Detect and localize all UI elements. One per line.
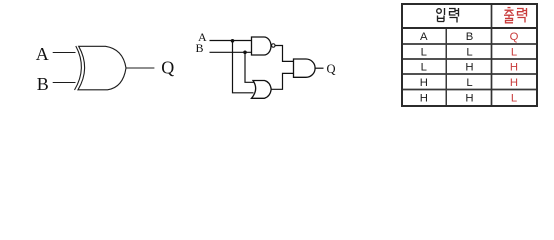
junction dot on B: [243, 51, 247, 55]
nand-gate U2 bubble: [272, 44, 276, 48]
xor-gate U1 body: [78, 46, 126, 90]
junction dot on A: [231, 39, 235, 43]
svg-text:L: L: [421, 62, 427, 74]
truth table row line 5: [403, 89, 536, 91]
wire A to XOR: [53, 52, 76, 54]
or-gate U3 body: [252, 81, 272, 99]
svg-text:Q: Q: [161, 58, 174, 78]
svg-text:B: B: [195, 41, 203, 55]
wire B to XOR: [53, 82, 76, 84]
truth table column line B|Q: [491, 5, 493, 105]
svg-text:L: L: [421, 46, 427, 58]
svg-text:A: A: [36, 44, 49, 64]
truth table row line 2: [403, 43, 536, 45]
wire B drop to OR: [245, 52, 254, 82]
svg-text:Q: Q: [326, 62, 335, 76]
wire A drop to OR: [233, 41, 254, 93]
wire XOR output to Q: [126, 67, 154, 69]
svg-text:H: H: [465, 62, 473, 74]
wire OR output to AND: [271, 73, 293, 89]
svg-text:B: B: [466, 31, 474, 43]
wire AND output: [315, 67, 323, 69]
wire A horizontal: [210, 40, 252, 42]
svg-text:A: A: [420, 31, 428, 43]
svg-text:H: H: [510, 77, 518, 89]
xor-gate U1 input arc: [75, 46, 82, 90]
svg-text:H: H: [420, 77, 428, 89]
truth table row line 4: [403, 73, 536, 75]
wire B horizontal: [210, 51, 252, 53]
svg-text:H: H: [465, 92, 473, 104]
svg-text:H: H: [420, 92, 428, 104]
truth table row line 3: [403, 58, 536, 60]
svg-text:B: B: [37, 74, 49, 94]
svg-text:L: L: [466, 77, 472, 89]
svg-text:Q: Q: [510, 31, 519, 43]
and-gate U4 body: [294, 59, 316, 77]
svg-text:H: H: [510, 62, 518, 74]
svg-text:L: L: [466, 46, 472, 58]
truth table column line A|B: [445, 29, 447, 105]
svg-text:L: L: [511, 92, 517, 104]
header 출력 (hangul drawn as paths, red): [504, 8, 527, 23]
svg-text:L: L: [511, 46, 517, 58]
nand-gate U2 body: [252, 37, 272, 55]
header 입력 (hangul drawn as paths): [437, 8, 459, 23]
truth table header underline: [402, 27, 537, 29]
wire NAND output to AND: [275, 46, 293, 62]
truth table outer border: [402, 4, 537, 106]
